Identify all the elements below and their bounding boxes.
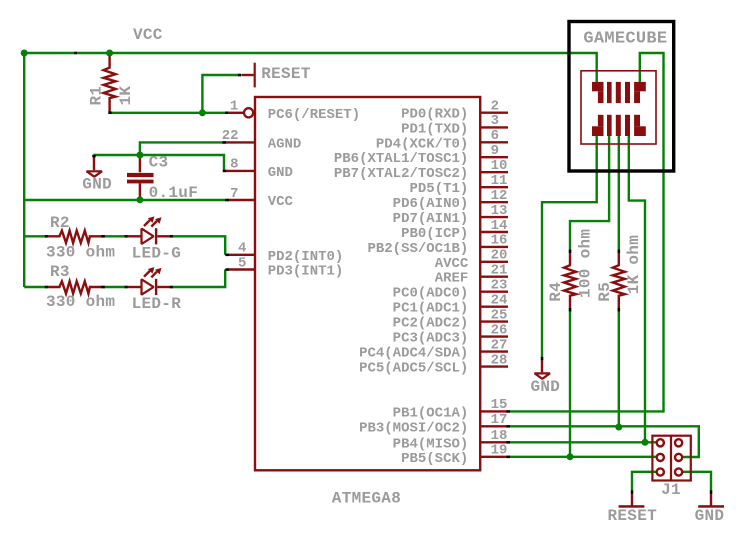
svg-text:PB7(XTAL2/TOSC2): PB7(XTAL2/TOSC2) [334,166,468,182]
svg-text:26: 26 [491,322,508,338]
svg-text:9: 9 [491,143,499,159]
svg-text:24: 24 [491,293,508,309]
svg-text:R2: R2 [50,214,70,232]
svg-text:PB6(XTAL1/TOSC1): PB6(XTAL1/TOSC1) [334,151,468,167]
svg-text:PD5(T1): PD5(T1) [409,181,468,197]
svg-text:PC0(ADC0): PC0(ADC0) [393,286,469,302]
svg-text:R3: R3 [50,263,70,281]
svg-text:PB2(SS/OC1B): PB2(SS/OC1B) [367,241,468,257]
svg-text:6: 6 [491,128,499,144]
svg-text:330 ohm: 330 ohm [46,293,115,311]
svg-text:1K: 1K [117,86,135,106]
svg-text:PD4(XCK/T0): PD4(XCK/T0) [376,136,468,152]
svg-text:PD6(AIN0): PD6(AIN0) [393,196,469,212]
svg-text:AVCC: AVCC [435,256,469,272]
svg-text:8: 8 [230,157,238,173]
svg-text:5: 5 [238,255,246,271]
svg-text:15: 15 [491,397,508,413]
svg-text:R1: R1 [88,86,106,106]
svg-text:20: 20 [491,248,508,264]
svg-text:19: 19 [491,443,508,459]
svg-text:PC4(ADC4/SDA): PC4(ADC4/SDA) [359,346,468,362]
svg-text:27: 27 [491,337,508,353]
svg-text:PD3(INT1): PD3(INT1) [268,264,344,280]
svg-text:PC6(/RESET): PC6(/RESET) [268,107,360,123]
svg-text:GAMECUBE: GAMECUBE [583,29,667,48]
svg-text:PD0(RXD): PD0(RXD) [401,107,468,123]
svg-text:C3: C3 [149,153,169,171]
svg-text:1K ohm: 1K ohm [625,235,643,295]
svg-text:4: 4 [238,241,246,257]
svg-text:AGND: AGND [268,136,302,152]
svg-text:11: 11 [491,173,508,189]
svg-text:LED-G: LED-G [132,245,182,263]
svg-text:PB3(MOSI/OC2): PB3(MOSI/OC2) [359,420,468,436]
svg-text:ATMEGA8: ATMEGA8 [332,490,401,508]
svg-text:17: 17 [491,412,508,428]
svg-text:PB1(OC1A): PB1(OC1A) [393,405,469,421]
svg-text:GND: GND [268,165,293,181]
svg-text:PD1(TXD): PD1(TXD) [401,121,468,137]
svg-text:12: 12 [491,188,508,204]
svg-text:LED-R: LED-R [132,295,182,313]
svg-text:330 ohm: 330 ohm [46,244,115,262]
svg-text:7: 7 [230,186,238,202]
svg-text:PB0(ICP): PB0(ICP) [401,226,468,242]
svg-text:3: 3 [491,113,499,129]
svg-text:PB5(SCK): PB5(SCK) [401,451,468,467]
svg-text:GND: GND [531,378,561,396]
svg-text:21: 21 [491,263,508,279]
svg-text:VCC: VCC [268,194,294,210]
svg-text:23: 23 [491,278,508,294]
svg-text:R5: R5 [596,282,614,302]
svg-text:GND: GND [695,507,725,525]
svg-text:13: 13 [491,203,508,219]
svg-text:1: 1 [230,99,238,115]
svg-text:VCC: VCC [133,26,163,44]
svg-text:2: 2 [491,99,499,115]
svg-text:J1: J1 [661,481,681,499]
svg-text:RESET: RESET [261,65,311,83]
svg-text:14: 14 [491,218,508,234]
svg-text:25: 25 [491,307,508,323]
svg-text:RESET: RESET [608,507,658,525]
svg-text:PD7(AIN1): PD7(AIN1) [393,211,469,227]
svg-text:PC5(ADC5/SCL): PC5(ADC5/SCL) [359,361,468,377]
svg-text:100 ohm: 100 ohm [576,229,594,298]
svg-text:PD2(INT0): PD2(INT0) [268,249,344,265]
svg-text:28: 28 [491,352,508,368]
svg-text:22: 22 [222,128,239,144]
svg-text:PC3(ADC3): PC3(ADC3) [393,331,469,347]
svg-text:PC2(ADC2): PC2(ADC2) [393,316,469,332]
svg-text:R4: R4 [547,282,565,302]
svg-text:0.1uF: 0.1uF [149,184,199,202]
svg-text:AREF: AREF [435,271,469,287]
svg-text:10: 10 [491,158,508,174]
svg-text:16: 16 [491,233,508,249]
svg-text:GND: GND [82,175,112,193]
svg-text:PC1(ADC1): PC1(ADC1) [393,301,469,317]
